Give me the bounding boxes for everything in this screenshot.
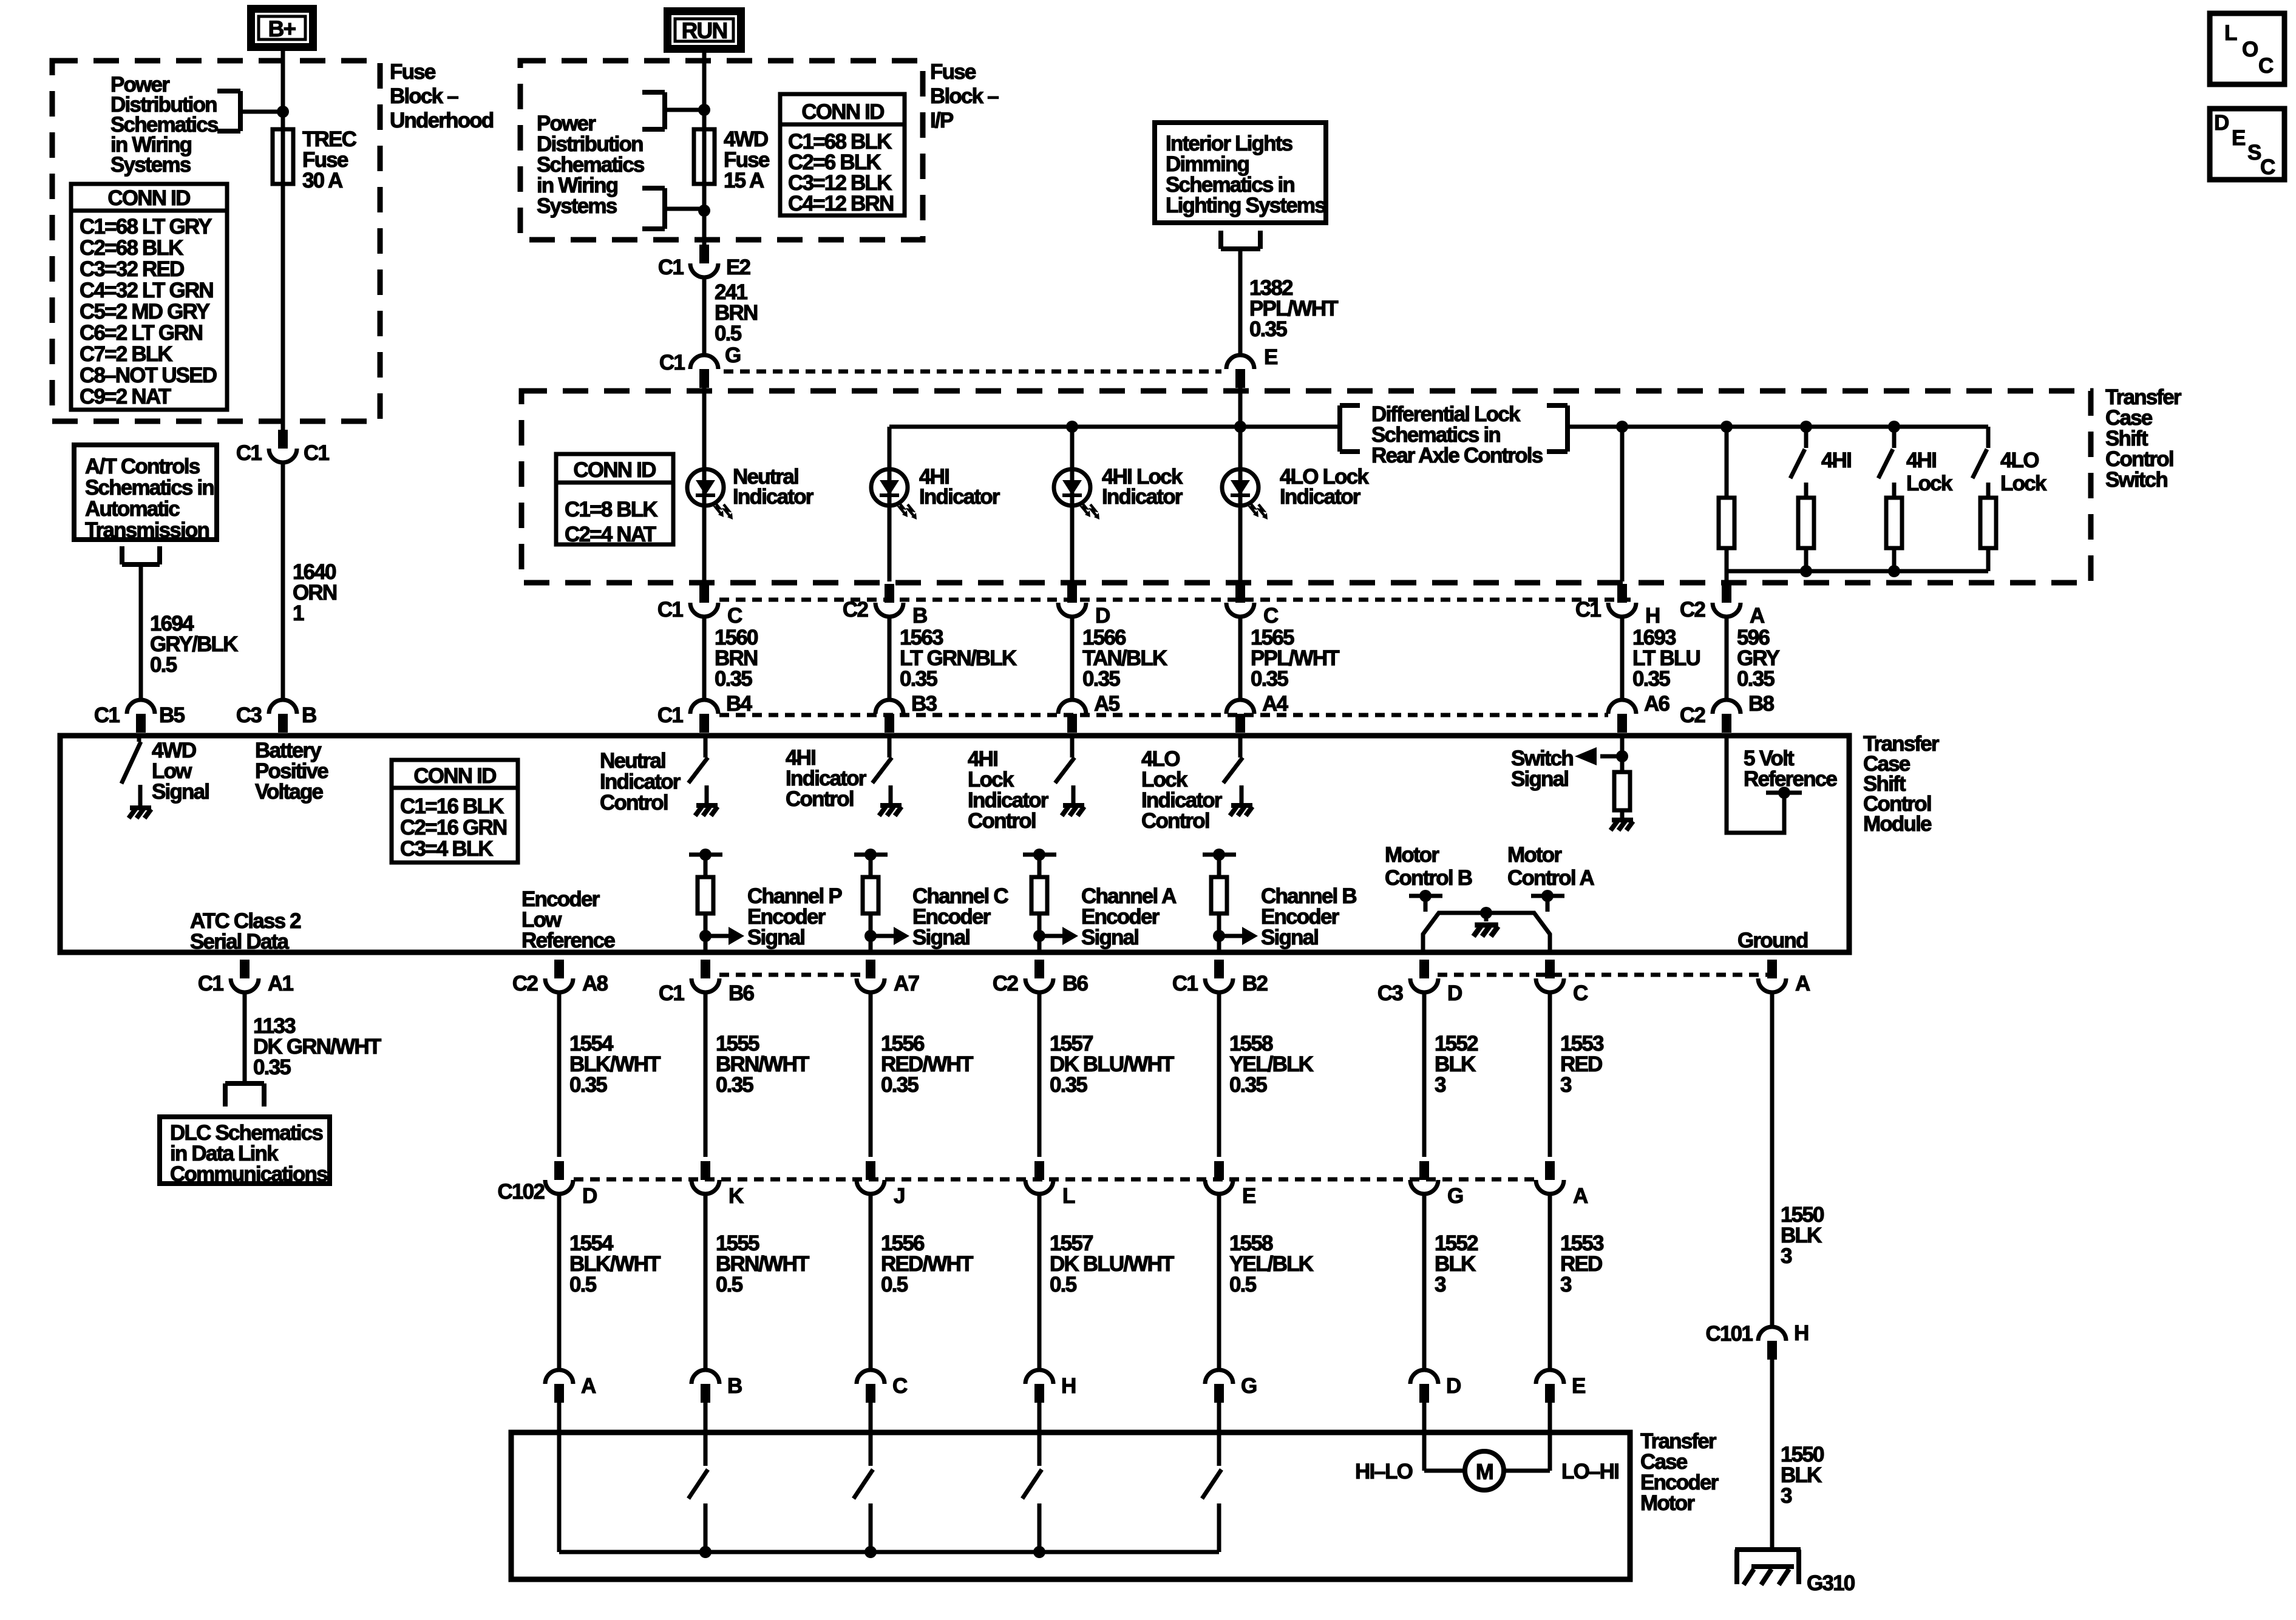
svg-text:C3: C3	[1377, 981, 1403, 1005]
svg-text:C1: C1	[659, 351, 685, 374]
svg-text:G: G	[1447, 1184, 1463, 1208]
svg-text:RUN: RUN	[682, 18, 727, 43]
svg-text:G: G	[1241, 1374, 1257, 1398]
svg-text:Ground: Ground	[1737, 929, 1808, 952]
svg-text:C7=2 BLK: C7=2 BLK	[80, 342, 172, 366]
svg-text:C2=16 GRN: C2=16 GRN	[400, 816, 506, 839]
svg-text:Indicator: Indicator	[1280, 485, 1361, 509]
svg-text:3: 3	[1781, 1244, 1792, 1268]
svg-text:C5=2 MD GRY: C5=2 MD GRY	[80, 300, 210, 324]
svg-text:C: C	[1263, 604, 1279, 628]
svg-text:Motor: Motor	[1507, 843, 1562, 867]
svg-text:0.35: 0.35	[1082, 667, 1120, 691]
svg-text:E2: E2	[726, 256, 751, 279]
svg-text:E: E	[2232, 126, 2245, 150]
svg-text:B2: B2	[1242, 972, 1268, 995]
svg-text:3: 3	[1560, 1273, 1572, 1296]
svg-text:D: D	[1446, 1374, 1461, 1398]
svg-text:Motor: Motor	[1385, 843, 1439, 867]
svg-text:Fuse: Fuse	[390, 60, 436, 84]
svg-text:Control A: Control A	[1507, 866, 1594, 890]
svg-text:0.35: 0.35	[900, 667, 937, 691]
svg-text:Module: Module	[1863, 812, 1932, 836]
svg-text:Lock: Lock	[1906, 472, 1953, 495]
svg-text:Motor: Motor	[1640, 1491, 1695, 1515]
svg-text:L: L	[1062, 1184, 1075, 1208]
svg-text:A: A	[1573, 1184, 1588, 1208]
svg-text:D: D	[2214, 111, 2229, 135]
svg-text:0.35: 0.35	[253, 1056, 291, 1079]
svg-text:B: B	[727, 1374, 742, 1398]
svg-text:Block –: Block –	[930, 84, 999, 108]
svg-text:C1=16 BLK: C1=16 BLK	[400, 795, 504, 818]
svg-text:C1: C1	[198, 972, 223, 995]
svg-text:E: E	[1242, 1184, 1255, 1208]
svg-text:Control: Control	[968, 809, 1036, 833]
svg-text:G: G	[725, 344, 741, 367]
svg-text:C1: C1	[657, 703, 683, 727]
svg-text:C: C	[727, 604, 742, 628]
svg-text:Serial Data: Serial Data	[190, 930, 289, 954]
svg-text:E: E	[1572, 1374, 1585, 1398]
svg-text:C2: C2	[993, 972, 1018, 995]
svg-text:H: H	[1645, 604, 1659, 628]
svg-text:B6: B6	[1062, 972, 1088, 995]
svg-text:3: 3	[1435, 1273, 1446, 1296]
svg-text:Signal: Signal	[1261, 926, 1318, 949]
svg-text:0.5: 0.5	[715, 322, 742, 345]
svg-text:C1: C1	[94, 703, 120, 727]
svg-text:0.35: 0.35	[716, 1073, 753, 1097]
svg-text:Control: Control	[786, 787, 854, 811]
svg-text:CONN ID: CONN ID	[801, 100, 884, 124]
svg-text:Reference: Reference	[1744, 767, 1837, 791]
svg-text:C2: C2	[843, 598, 868, 622]
svg-text:15 A: 15 A	[724, 169, 764, 192]
svg-text:0.35: 0.35	[1251, 667, 1288, 691]
svg-text:B3: B3	[911, 692, 937, 716]
svg-text:C6=2 LT GRN: C6=2 LT GRN	[80, 321, 202, 345]
svg-text:I/P: I/P	[930, 109, 954, 132]
svg-text:C1: C1	[1575, 598, 1601, 622]
svg-text:Systems: Systems	[110, 153, 191, 177]
svg-text:Indicator: Indicator	[919, 485, 1000, 509]
svg-text:B4: B4	[726, 692, 752, 716]
svg-text:Lighting Systems: Lighting Systems	[1166, 194, 1326, 217]
svg-text:Voltage: Voltage	[255, 780, 324, 804]
svg-text:K: K	[729, 1184, 744, 1208]
svg-text:D: D	[582, 1184, 597, 1208]
svg-text:C1: C1	[1172, 972, 1198, 995]
svg-text:Signal: Signal	[152, 780, 209, 804]
svg-text:Signal: Signal	[1081, 926, 1138, 949]
svg-text:C102: C102	[498, 1180, 545, 1204]
svg-text:CONN ID: CONN ID	[413, 764, 496, 788]
svg-text:CONN ID: CONN ID	[107, 186, 190, 210]
svg-text:3: 3	[1781, 1484, 1792, 1508]
svg-text:0.35: 0.35	[1632, 667, 1670, 691]
svg-text:B8: B8	[1748, 692, 1774, 716]
svg-text:4LO: 4LO	[2000, 449, 2039, 472]
svg-text:1: 1	[293, 602, 304, 625]
svg-text:Transmission: Transmission	[85, 518, 209, 542]
svg-text:C: C	[1573, 981, 1588, 1005]
svg-text:4HI: 4HI	[1906, 449, 1936, 472]
svg-text:30 A: 30 A	[302, 169, 343, 192]
svg-text:C: C	[2260, 155, 2275, 179]
svg-text:Communications: Communications	[170, 1162, 328, 1186]
svg-text:Signal: Signal	[1511, 767, 1568, 791]
svg-text:Schematics in: Schematics in	[85, 476, 214, 500]
svg-text:Control: Control	[600, 791, 668, 815]
svg-text:C3=4 BLK: C3=4 BLK	[400, 837, 493, 861]
svg-text:A5: A5	[1094, 692, 1119, 716]
svg-text:H: H	[1794, 1321, 1808, 1345]
svg-text:E: E	[1264, 345, 1277, 369]
svg-text:B5: B5	[159, 703, 185, 727]
svg-text:S: S	[2247, 141, 2261, 164]
svg-text:J: J	[894, 1184, 905, 1208]
svg-text:Signal: Signal	[747, 926, 804, 949]
svg-text:C3: C3	[236, 703, 262, 727]
svg-text:LO–HI: LO–HI	[1561, 1460, 1618, 1483]
svg-text:Signal: Signal	[912, 926, 970, 949]
svg-text:A6: A6	[1644, 692, 1669, 716]
svg-text:3: 3	[1560, 1073, 1572, 1097]
svg-text:0.5: 0.5	[1050, 1273, 1077, 1296]
svg-text:0.5: 0.5	[569, 1273, 597, 1296]
svg-text:B+: B+	[268, 16, 296, 41]
svg-text:3: 3	[1435, 1073, 1446, 1097]
svg-text:0.5: 0.5	[1229, 1273, 1257, 1296]
svg-text:Neutral: Neutral	[600, 749, 665, 773]
svg-text:M: M	[1476, 1459, 1493, 1484]
svg-text:0.5: 0.5	[150, 653, 177, 677]
svg-text:0.35: 0.35	[569, 1073, 607, 1097]
svg-text:D: D	[1447, 981, 1462, 1005]
svg-text:Automatic: Automatic	[85, 497, 180, 521]
svg-text:D: D	[1095, 604, 1110, 628]
svg-text:C1=68 LT GRY: C1=68 LT GRY	[80, 215, 212, 239]
svg-text:C1: C1	[236, 441, 262, 465]
svg-text:0.35: 0.35	[881, 1073, 919, 1097]
svg-text:Control: Control	[1141, 809, 1209, 833]
svg-text:O: O	[2242, 38, 2258, 61]
svg-text:A: A	[1750, 604, 1765, 628]
svg-text:C2: C2	[1680, 598, 1705, 622]
svg-text:0.35: 0.35	[1229, 1073, 1267, 1097]
svg-text:C: C	[892, 1374, 908, 1398]
svg-text:0.35: 0.35	[1249, 317, 1287, 341]
svg-text:B: B	[302, 703, 316, 727]
svg-text:C1: C1	[658, 256, 684, 279]
svg-text:Control B: Control B	[1385, 866, 1472, 890]
svg-text:C9=2 NAT: C9=2 NAT	[80, 385, 171, 408]
svg-text:A4: A4	[1262, 692, 1288, 716]
svg-text:B: B	[912, 604, 927, 628]
svg-text:C3=32 RED: C3=32 RED	[80, 257, 184, 281]
svg-text:CONN ID: CONN ID	[573, 458, 656, 482]
svg-text:C2: C2	[1680, 703, 1705, 727]
svg-text:0.35: 0.35	[1737, 667, 1775, 691]
svg-text:C1: C1	[657, 598, 683, 622]
svg-text:HI–LO: HI–LO	[1355, 1460, 1413, 1483]
svg-text:C2: C2	[512, 972, 538, 995]
svg-text:C: C	[2258, 54, 2274, 78]
svg-text:Indicator: Indicator	[733, 485, 814, 509]
svg-text:Rear Axle Controls: Rear Axle Controls	[1371, 444, 1543, 467]
svg-text:Switch: Switch	[2105, 468, 2167, 492]
svg-text:Block –: Block –	[390, 84, 458, 108]
svg-text:L: L	[2224, 21, 2237, 45]
svg-text:Indicator: Indicator	[1102, 485, 1183, 509]
svg-text:A1: A1	[268, 972, 293, 995]
svg-text:B6: B6	[729, 981, 754, 1005]
svg-text:A7: A7	[894, 972, 919, 995]
svg-text:C4=32 LT GRN: C4=32 LT GRN	[80, 279, 213, 302]
svg-text:0.35: 0.35	[715, 667, 752, 691]
svg-text:Fuse: Fuse	[930, 60, 976, 84]
svg-text:Indicator: Indicator	[600, 770, 681, 794]
svg-text:Lock: Lock	[2000, 472, 2047, 495]
svg-text:A8: A8	[582, 972, 608, 995]
svg-text:0.5: 0.5	[716, 1273, 743, 1296]
svg-text:C1: C1	[304, 441, 329, 465]
svg-text:Systems: Systems	[537, 194, 617, 218]
svg-text:Underhood: Underhood	[390, 109, 494, 132]
svg-text:C4=12 BRN: C4=12 BRN	[788, 192, 893, 215]
svg-text:C8–NOT USED: C8–NOT USED	[80, 364, 217, 387]
svg-text:C2=4 NAT: C2=4 NAT	[565, 523, 656, 546]
svg-text:C1=8 BLK: C1=8 BLK	[565, 498, 657, 521]
svg-text:4HI: 4HI	[1821, 449, 1851, 472]
svg-text:A: A	[581, 1374, 596, 1398]
svg-text:G310: G310	[1807, 1571, 1855, 1595]
svg-text:H: H	[1061, 1374, 1075, 1398]
svg-text:0.35: 0.35	[1050, 1073, 1087, 1097]
svg-text:0.5: 0.5	[881, 1273, 908, 1296]
svg-text:C2=68 BLK: C2=68 BLK	[80, 236, 183, 260]
svg-text:C1: C1	[659, 981, 684, 1005]
svg-text:Reference: Reference	[521, 929, 615, 952]
svg-text:A: A	[1795, 972, 1810, 995]
svg-text:C101: C101	[1706, 1322, 1753, 1346]
svg-text:A/T Controls: A/T Controls	[85, 455, 200, 478]
